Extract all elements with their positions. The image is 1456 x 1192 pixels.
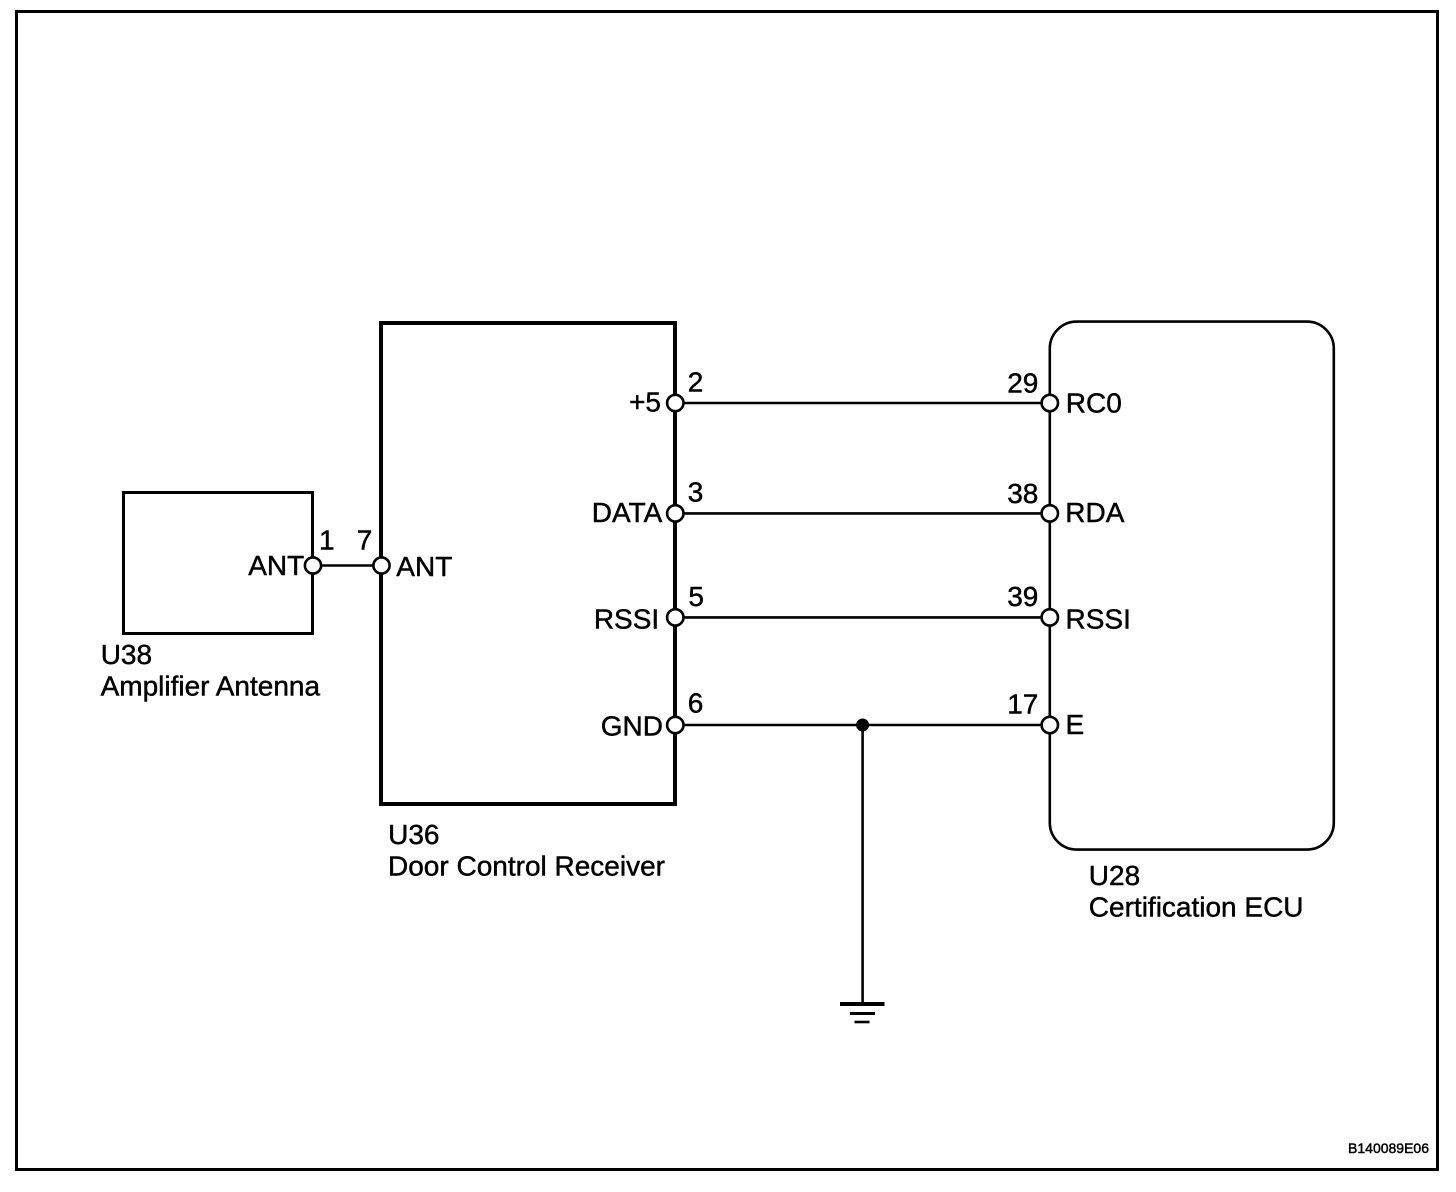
pin circle U36 pin2 — [667, 395, 683, 411]
junction dot — [856, 719, 869, 732]
svg-text:7: 7 — [357, 525, 373, 556]
svg-text:ANT: ANT — [396, 551, 452, 582]
wire ground drop — [861, 725, 864, 1003]
svg-text:U38: U38 — [101, 639, 152, 670]
svg-text:29: 29 — [1007, 367, 1038, 398]
svg-text:2: 2 — [688, 367, 704, 398]
pin circle U36 pin6 — [667, 717, 683, 733]
pin circle U36 pin3 — [667, 505, 683, 521]
svg-text:5: 5 — [688, 581, 704, 612]
svg-text:U28: U28 — [1089, 860, 1140, 891]
pin circle U36 pin7 — [373, 557, 389, 573]
component U28 box — [1050, 322, 1334, 850]
pin circle U28 pin17 — [1042, 717, 1058, 733]
wire net GND/E — [675, 724, 1050, 727]
svg-text:Amplifier Antenna: Amplifier Antenna — [101, 671, 321, 702]
pin circle U38 pin1 — [305, 557, 321, 573]
svg-text:17: 17 — [1007, 688, 1038, 719]
svg-text:U36: U36 — [388, 819, 439, 850]
ground — [840, 1004, 885, 1022]
wire net DATA/RDA — [675, 512, 1050, 515]
pin circle U36 pin5 — [667, 609, 683, 625]
svg-text:Certification ECU: Certification ECU — [1089, 892, 1304, 923]
component U38 box — [124, 493, 313, 634]
svg-text:RDA: RDA — [1065, 497, 1124, 528]
svg-text:38: 38 — [1007, 478, 1038, 509]
svg-text:E: E — [1066, 709, 1085, 740]
wire net +5/RC0 — [675, 402, 1050, 405]
pin circle U28 pin39 — [1042, 609, 1058, 625]
svg-text:B140089E06: B140089E06 — [1348, 1140, 1429, 1156]
svg-text:DATA: DATA — [592, 497, 663, 528]
svg-text:6: 6 — [688, 688, 704, 719]
svg-text:+5: +5 — [629, 387, 661, 418]
pin circle U28 pin38 — [1042, 505, 1058, 521]
svg-text:ANT: ANT — [248, 550, 304, 581]
svg-text:GND: GND — [601, 710, 663, 741]
svg-text:3: 3 — [688, 477, 704, 508]
svg-text:RC0: RC0 — [1066, 388, 1122, 419]
svg-text:RSSI: RSSI — [1066, 604, 1131, 635]
wire ANT net — [313, 564, 381, 567]
component U36 box — [381, 323, 675, 804]
pin circle U28 pin29 — [1042, 395, 1058, 411]
svg-text:Door Control Receiver: Door Control Receiver — [388, 851, 665, 882]
svg-text:39: 39 — [1007, 581, 1038, 612]
wire net RSSI/RSSI — [675, 616, 1050, 619]
svg-text:RSSI: RSSI — [594, 604, 659, 635]
svg-text:1: 1 — [319, 525, 335, 556]
